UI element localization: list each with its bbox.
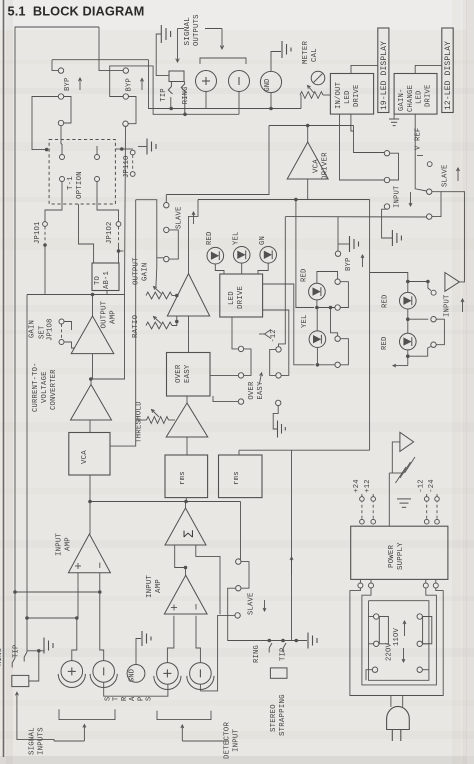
switch overeasy left pair — [238, 346, 243, 351]
svg-text:STEREO: STEREO — [270, 704, 278, 732]
svg-text:CHANGE: CHANGE — [407, 85, 415, 112]
wire dot2 to slave sw — [408, 318, 428, 320]
svg-text:OVER: OVER — [248, 381, 256, 400]
svg-text:GN: GN — [259, 236, 267, 245]
arrow detector input — [181, 725, 183, 741]
wire vca driver feedback left — [166, 126, 269, 195]
svg-text:TO: TO — [94, 276, 102, 285]
wire in/out drive down B — [351, 114, 354, 131]
svg-text:rms: rms — [233, 471, 241, 485]
wire meter cal tap — [300, 95, 302, 109]
svg-text:EASY: EASY — [257, 381, 265, 400]
svg-text:5.1 BLOCK DIAGRAM: 5.1 BLOCK DIAGRAM — [8, 4, 145, 19]
wire bus to slave — [238, 502, 240, 560]
wire gain amp out up — [189, 200, 199, 274]
wire supply loops outer — [350, 588, 443, 696]
wire jack to ground — [27, 651, 39, 681]
wire BYP1 mid to T-1 box — [32, 97, 58, 150]
wire gain amp in down — [188, 316, 190, 353]
wire selector frame — [369, 601, 429, 681]
jumper 220/110 left — [374, 614, 379, 619]
junction ring — [183, 113, 187, 117]
wire rms1 bottom stub — [185, 498, 187, 502]
wire overeasy to amp — [186, 396, 188, 403]
jumper jp108 — [59, 319, 64, 324]
svg-text:RING: RING — [253, 645, 261, 663]
connector input - — [93, 661, 115, 683]
pins supply output — [359, 579, 361, 583]
ground output jack — [160, 25, 162, 43]
wire overeasy left loop — [244, 349, 251, 376]
svg-text:SLAVE: SLAVE — [442, 164, 450, 187]
ac plug — [387, 706, 410, 729]
wire - output drop — [238, 92, 240, 115]
wire signal inputs pointer — [54, 740, 84, 742]
arrow signal inputs jack — [16, 692, 18, 706]
connector output + — [196, 71, 217, 92]
wire t-1 node — [115, 148, 121, 150]
wire outer frame left (ring return) — [15, 27, 99, 592]
input jack box — [12, 675, 29, 686]
svg-text:STRAPPING: STRAPPING — [279, 694, 287, 736]
block OVER EASY — [167, 353, 211, 397]
wire overeasy bottom left — [238, 399, 243, 404]
svg-text:BYP: BYP — [64, 77, 72, 91]
wire vca bottom — [89, 475, 91, 502]
svg-text:V REF: V REF — [415, 127, 423, 150]
wire power buffer in — [392, 442, 400, 473]
wire input - stub — [100, 592, 104, 661]
wire in/out to 19-led — [351, 65, 378, 73]
wire cv to vca — [89, 420, 91, 433]
led GN — [260, 247, 277, 264]
wire slave det mid to strap ring — [228, 588, 307, 640]
ground jp110 — [138, 146, 147, 148]
block 12-LED DISPLAY — [442, 28, 453, 113]
svg-text:BYP: BYP — [345, 257, 353, 271]
block POWER SUPPLY — [351, 526, 448, 579]
wire A down to output tip bus — [149, 60, 302, 109]
led RED r2 — [400, 333, 417, 350]
wire leds to drive box — [215, 264, 224, 274]
ground strap — [307, 633, 309, 649]
svg-text:T-1: T-1 — [67, 176, 75, 190]
tick v ref — [417, 155, 423, 157]
wire slave mid loop — [169, 230, 178, 259]
wire yel top link — [331, 308, 338, 337]
arrow BYP1 — [79, 78, 81, 90]
svg-text:DRIVE: DRIVE — [353, 84, 361, 107]
svg-text:LED: LED — [416, 90, 424, 104]
wire slave mid bottom to pot — [136, 200, 157, 287]
jumper t1 d — [95, 177, 100, 182]
wire red chain — [370, 273, 408, 293]
wire ring bus to jack — [14, 592, 16, 658]
arrow input right — [462, 299, 464, 312]
svg-text:DRIVE: DRIVE — [237, 285, 245, 309]
jumper 220/110 right — [417, 614, 422, 619]
wire main bus down (byp2 to ratio) — [125, 126, 126, 294]
pot THRESHOLD — [147, 417, 169, 424]
arrow 220v — [403, 648, 405, 662]
svg-text:YEL: YEL — [301, 314, 309, 328]
wire slave2 loop — [436, 319, 444, 345]
wire strap tip drop — [291, 450, 293, 640]
wire tip bus junction — [27, 617, 77, 619]
svg-text:Σ: Σ — [181, 530, 196, 538]
wire chassis to supply — [388, 473, 390, 526]
wire output amp input — [92, 354, 94, 379]
contact input mute — [384, 204, 389, 209]
contact v ref — [427, 162, 432, 167]
svg-text:GAIN: GAIN — [29, 320, 37, 338]
svg-text:TIP: TIP — [160, 88, 168, 102]
block IN/OUT LED DRIVE — [330, 74, 373, 115]
svg-text:OUTPUT: OUTPUT — [101, 300, 109, 328]
wire slave top stub — [165, 195, 167, 203]
svg-text:A: A — [129, 696, 137, 701]
svg-text:VOLTAGE: VOLTAGE — [41, 371, 49, 403]
wire sum right input — [196, 545, 220, 614]
svg-text:RED: RED — [206, 231, 214, 245]
svg-text:POWER: POWER — [388, 544, 396, 568]
resistor meter cal — [300, 92, 323, 99]
svg-text:THRESHOLD: THRESHOLD — [135, 401, 143, 443]
svg-text:CAL: CAL — [311, 48, 319, 62]
wire sum amp feed — [185, 502, 187, 509]
svg-text:DRIVE: DRIVE — [424, 84, 432, 107]
switch BYP2 contacts — [123, 68, 128, 73]
connector det + — [157, 663, 179, 685]
svg-text:GND: GND — [264, 78, 272, 91]
switch slave det contacts — [236, 559, 241, 564]
block GAIN-CHANGE LED DRIVE — [394, 74, 437, 115]
svg-text:INPUT: INPUT — [146, 574, 154, 598]
switch slave mid contacts — [164, 203, 169, 208]
wire vca driver input — [296, 179, 308, 200]
wire ab1 bottom stub — [106, 291, 108, 295]
junction tip — [169, 107, 173, 111]
svg-text:-12: -12 — [418, 479, 426, 493]
wire jp102 to bus — [119, 250, 124, 252]
arrow meter cal wiper — [308, 86, 315, 94]
svg-text:T: T — [113, 697, 121, 701]
wire BYP2 loop — [128, 97, 136, 124]
arrow BYP2 — [141, 78, 143, 90]
opamp sidechain — [166, 403, 208, 437]
connector output gnd — [260, 71, 281, 92]
connector input + — [61, 661, 83, 683]
wire det - bottom — [199, 684, 201, 691]
svg-text:AMP: AMP — [65, 537, 73, 551]
led RED gc1 — [309, 283, 326, 300]
wire jack feed — [156, 34, 169, 76]
led RED — [207, 247, 224, 264]
svg-text:12-LED DISPLAY: 12-LED DISPLAY — [444, 41, 453, 110]
wire output node — [27, 294, 125, 296]
svg-text:S: S — [146, 697, 154, 701]
wire input amp + down — [77, 573, 79, 618]
wire det + stub — [167, 616, 174, 663]
switch overeasy right pair — [276, 347, 281, 352]
svg-text:CURRENT-TO-: CURRENT-TO- — [32, 362, 40, 412]
jumper t1 b — [95, 155, 100, 160]
arrow signal inputs bracket — [83, 725, 85, 742]
arrow byp meter — [362, 255, 364, 267]
svg-text:LED: LED — [344, 90, 352, 104]
wire buffer out — [441, 192, 465, 282]
switch BYP1 contacts — [58, 68, 63, 73]
block T-1 OPTION dashed — [49, 140, 115, 205]
wire output amp out — [92, 295, 94, 317]
wire meter rail — [285, 216, 426, 218]
block 19-LED DISPLAY — [378, 28, 389, 113]
svg-text:DRIVER: DRIVER — [322, 152, 330, 180]
opamp INPUT AMP detector — [164, 575, 207, 614]
wire output node down to input tip — [26, 295, 28, 653]
led YEL — [233, 247, 250, 264]
strap jack box — [270, 668, 287, 678]
wire t1 stubs — [60, 126, 62, 144]
arrow 110v — [404, 621, 406, 636]
svg-text:AMP: AMP — [155, 579, 163, 593]
svg-text:OPTION: OPTION — [76, 171, 84, 199]
contact buffer in — [431, 290, 436, 295]
contact sel bottom right — [417, 667, 422, 672]
svg-text:GAIN-: GAIN- — [398, 88, 406, 111]
svg-text:22OV: 22OV — [386, 642, 394, 661]
wire rms sidechain return — [198, 199, 296, 201]
wire vca driver out run — [269, 125, 354, 127]
wire jp108 to amp — [64, 322, 71, 331]
wire cv out — [90, 379, 92, 385]
svg-text:11OV: 11OV — [393, 627, 401, 646]
svg-text:DETECTOR: DETECTOR — [224, 722, 232, 759]
scan edge line left — [3, 0, 5, 757]
wire led drive bottom — [232, 317, 238, 349]
wire frame to BYP2 top contact — [99, 27, 123, 71]
svg-text:JP11O: JP11O — [123, 155, 131, 178]
wire byp meter stub — [337, 217, 339, 251]
wire gnd stub — [271, 52, 281, 72]
svg-text:OUTPUT: OUTPUT — [133, 257, 141, 285]
svg-text:S: S — [105, 697, 113, 701]
svg-text:BYP: BYP — [126, 78, 134, 92]
block rms 2 — [219, 455, 263, 498]
svg-text:GND: GND — [129, 669, 137, 682]
svg-text:AMP: AMP — [110, 310, 118, 324]
svg-text:P: P — [137, 697, 145, 701]
wire selector stubs — [369, 616, 374, 618]
svg-text:OUTPUTS: OUTPUTS — [193, 14, 201, 46]
svg-text:METER: METER — [302, 40, 310, 64]
svg-text:INPUT: INPUT — [443, 294, 451, 317]
ground gain-change — [393, 114, 395, 119]
jumper t1 c — [60, 177, 65, 182]
opamp summing — [165, 508, 206, 545]
led YEL gc2 — [309, 331, 326, 348]
connector input gnd — [127, 665, 145, 683]
svg-text:VCA: VCA — [81, 450, 89, 464]
output jack box — [169, 71, 184, 82]
svg-text:INPUTS: INPUTS — [38, 727, 46, 755]
svg-text:SIGNAL: SIGNAL — [29, 727, 37, 755]
arrow input down — [410, 192, 412, 206]
switch input slave contacts — [427, 189, 432, 194]
contact overeasy common — [276, 400, 281, 405]
wire signal outputs pointer — [205, 28, 222, 30]
ground input gnd — [141, 631, 143, 646]
wire meter cal to in/out drive — [323, 94, 330, 96]
wire gc loops — [340, 282, 348, 308]
svg-text:GAIN: GAIN — [142, 262, 150, 281]
svg-text:JP1O2: JP1O2 — [106, 221, 114, 244]
wire slave det bot to det amp — [200, 615, 235, 691]
arrow slave mid — [193, 212, 195, 224]
block VCA — [69, 433, 110, 476]
block rms 1 — [165, 455, 208, 498]
svg-text:CONVERTER: CONVERTER — [50, 369, 58, 410]
svg-text:AB-1: AB-1 — [103, 271, 111, 289]
svg-text:VCA: VCA — [313, 159, 321, 173]
arrow slave det — [264, 600, 266, 611]
contact byp meter — [335, 251, 340, 256]
wire red1 to buffer — [408, 281, 428, 283]
arrow chain out — [393, 365, 408, 367]
tip contact input — [24, 652, 27, 662]
block TO AB-1 — [92, 263, 119, 291]
ground overeasy b — [277, 421, 279, 438]
wire overeasy mid to box — [210, 374, 238, 376]
wire led drive right 3 — [263, 310, 289, 375]
ground byp meter — [338, 243, 350, 245]
svg-text:INPUT: INPUT — [56, 532, 64, 556]
wire BYP1 loop — [64, 97, 71, 124]
svg-text:JP1O8: JP1O8 — [47, 318, 55, 341]
arrow signal outputs to connectors — [221, 29, 223, 50]
wire led drive right 1 — [263, 284, 315, 365]
wire sidechain bus bottom — [239, 449, 370, 451]
arrow signal outputs to jack — [178, 28, 185, 30]
wire sum to det amp — [185, 568, 187, 576]
block LED DRIVE — [220, 274, 263, 317]
wire input + stub — [72, 618, 77, 661]
wire overeasy right top feed — [279, 217, 286, 347]
opamp gain block — [167, 274, 209, 316]
wire meter in/out loop — [390, 153, 399, 180]
wire plug stems — [390, 696, 392, 707]
svg-text:+24: +24 — [353, 479, 361, 493]
wire sum left input — [175, 545, 186, 568]
wire B byp2 mid to output ring bus — [110, 66, 239, 114]
wire bypass feed A — [52, 59, 149, 61]
wire input mute to ground — [382, 209, 392, 238]
wire slave det loop — [241, 562, 249, 589]
pins supply rails — [361, 494, 363, 526]
chassis ground hatch — [389, 472, 403, 474]
opamp current-to-voltage converter — [71, 385, 112, 421]
connector output - — [229, 71, 250, 92]
svg-text:RED: RED — [382, 294, 390, 308]
ring contact strap — [269, 643, 272, 653]
buffer power — [400, 432, 414, 451]
tip contact output jack — [168, 82, 172, 95]
supply tap -12 — [259, 333, 265, 335]
wire gnd input stub — [136, 639, 141, 665]
trimpot meter cal — [311, 71, 325, 85]
svg-text:INPUT: INPUT — [394, 185, 402, 208]
svg-text:OVER: OVER — [175, 364, 183, 383]
svg-text:-12: -12 — [270, 329, 278, 342]
contact sel bottom left — [372, 667, 377, 672]
wire det - stub — [196, 616, 200, 663]
opamp INPUT AMP — [68, 534, 110, 573]
svg-text:19-LED DISPLAY: 19-LED DISPLAY — [380, 41, 389, 110]
ground supply — [397, 498, 411, 500]
ground input jack — [43, 638, 45, 654]
scan streak noise — [0, 88, 474, 94]
svg-text:R: R — [121, 696, 129, 701]
wire audio bus lower — [90, 501, 241, 503]
wire gc led wiring — [316, 300, 318, 308]
wire input slave loop — [432, 192, 441, 217]
opamp OUTPUT AMP — [71, 316, 114, 354]
svg-text:+12: +12 — [364, 479, 372, 493]
svg-text:SLAVE: SLAVE — [247, 592, 255, 615]
svg-text:SUPPLY: SUPPLY — [397, 542, 405, 570]
ring contact output jack — [181, 82, 185, 115]
svg-text:RED: RED — [381, 336, 389, 350]
wire supply loops inner — [362, 588, 437, 685]
svg-text:INPUT: INPUT — [233, 728, 241, 752]
wire threshold feed — [136, 419, 147, 421]
wire sidechain amp to rms — [186, 437, 188, 455]
svg-text:IN/OUT: IN/OUT — [335, 81, 343, 109]
ring contact input — [12, 658, 15, 668]
led RED r1 — [400, 292, 417, 309]
bracket output connectors — [200, 58, 246, 64]
wire overeasy common — [273, 406, 278, 429]
svg-text:RING: RING — [0, 648, 4, 666]
wire vca driver out — [307, 126, 309, 143]
svg-text:rms: rms — [179, 471, 187, 485]
wire + output drop — [205, 92, 207, 109]
opamp VCA DRIVER — [287, 142, 328, 179]
switch gc contacts — [335, 279, 340, 284]
wire jp101 down — [44, 245, 46, 295]
wire straps — [104, 682, 168, 696]
wire gain-change to 12-led — [415, 65, 442, 73]
switch meter in/out contacts — [384, 151, 389, 156]
svg-text:SIGNAL: SIGNAL — [184, 17, 192, 46]
svg-text:JP1O1: JP1O1 — [34, 221, 42, 244]
wire led drive right 2 — [296, 200, 314, 308]
svg-text:RED: RED — [301, 268, 309, 282]
wire ring bus to input amp — [15, 591, 100, 593]
svg-text:SET: SET — [39, 325, 47, 339]
svg-text:YEL: YEL — [232, 231, 240, 245]
wire gain-change down — [415, 114, 426, 191]
bracket detector input — [157, 711, 211, 720]
wire in/out drive down A — [340, 114, 385, 180]
wire t1 to ab1 — [79, 204, 94, 263]
wire rms2 top to sidechain bus — [238, 450, 240, 455]
wire input amp - down — [99, 573, 101, 592]
wire ab1 top stub — [118, 251, 120, 263]
arrow overeasy — [260, 373, 262, 384]
svg-text:EASY: EASY — [184, 364, 192, 383]
svg-text:TIP: TIP — [13, 644, 21, 658]
